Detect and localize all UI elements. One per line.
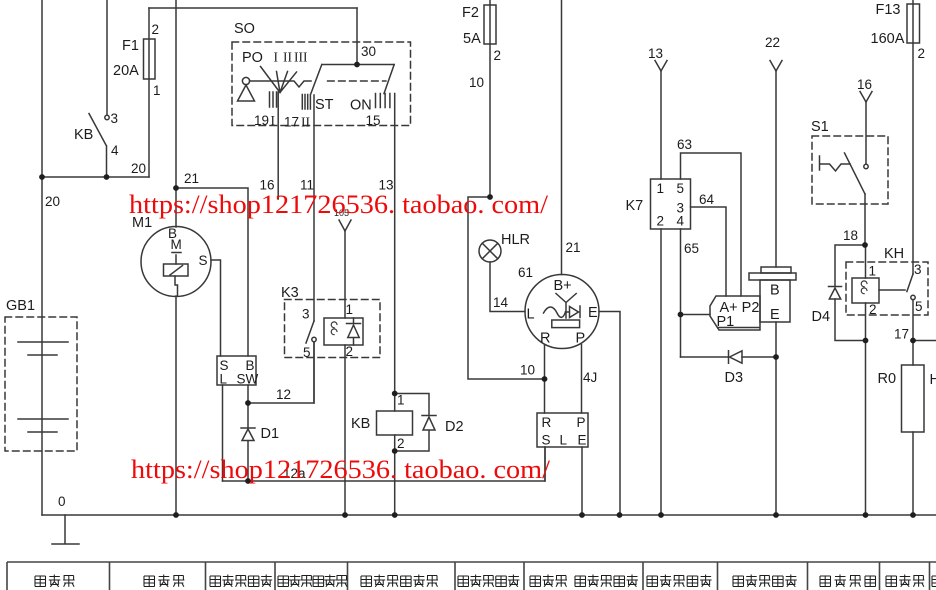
svg-text:P1: P1 [717,314,735,330]
wire SW L pin down to 12a [222,385,224,481]
ground [52,515,79,544]
generator B+ wire from top [561,0,563,275]
svg-text:B+: B+ [554,278,572,294]
wire K7 pin2 to bus [660,229,662,515]
S1 contact [864,164,868,168]
junction D4 KH [863,338,869,344]
svg-text:2: 2 [918,46,926,61]
SO contact 17 ST bars [302,95,310,110]
svg-text:20A: 20A [113,63,139,79]
wire 64 K7 pin3 to P2 [691,207,727,296]
svg-text:2: 2 [152,22,160,37]
junction node 17 [910,338,916,344]
wire KH coil 2 to bus [865,341,867,516]
wire KH coil to contact inside [879,289,905,291]
junction node 10 lower [542,376,548,382]
junction SO 30 [354,62,360,68]
junction KB relay 2 [392,448,398,454]
KH coil box [852,278,879,303]
svg-text:PO: PO [242,50,263,66]
wire 65 K7 pin4 [681,229,711,357]
switch S1 dashed box [812,136,888,204]
svg-text:5: 5 [915,299,923,314]
svg-text:P: P [577,415,586,430]
generator diode symbol [566,306,581,318]
svg-text:17: 17 [284,115,299,130]
wire 13 from SO 15 to relay KB [394,94,396,394]
svg-text:5A: 5A [463,31,481,47]
wire R0 to bus [912,432,914,515]
svg-text:3: 3 [914,262,922,277]
wire K3 contact 5 down [313,342,315,403]
junction node 12 [245,400,251,406]
svg-text:II: II [301,115,310,130]
wire box E pin to bus [581,447,583,515]
table text starter [144,575,184,587]
table text park relay [647,575,712,587]
table text preheat switch [820,575,876,587]
ground bus wire bottom [42,514,936,516]
svg-text:65: 65 [684,241,699,256]
junction node 10 top [487,194,493,200]
svg-text:4: 4 [111,143,119,158]
svg-text:S1: S1 [811,119,829,135]
connector 22 fork [770,61,782,72]
svg-text:F1: F1 [122,38,139,54]
table text charge lamp [458,575,519,587]
svg-text:21: 21 [184,171,199,186]
svg-text:E: E [770,307,780,323]
wire generator P 4J [581,345,583,414]
svg-text:17: 17 [894,327,909,342]
battery GB1 dashed box [5,317,77,451]
junction node 65 [678,312,684,318]
generator star winding [556,294,576,319]
svg-text:61: 61 [518,265,533,280]
wire 16 to S1 [865,102,867,164]
SO position fan lines [261,67,297,93]
relay K7 box [651,179,691,229]
SO contact 19 bars [270,92,277,107]
SO rotor alt position dashed [328,80,386,82]
wire 105 to K3 coil [344,231,346,318]
diode D3 [681,351,777,363]
svg-text:II: II [283,50,292,65]
svg-text:B: B [770,283,780,299]
diode D2 [395,394,436,452]
svg-text:4J: 4J [583,370,597,385]
wire 63 K7 pin5 to P2 [681,153,742,296]
svg-text:15: 15 [366,113,381,128]
junction node 12a [245,478,251,484]
junction node 21 [173,185,179,191]
svg-text:13: 13 [648,46,663,61]
fuse F2 [489,0,491,197]
wire node 10 branch left [468,197,545,379]
svg-text:R: R [542,415,552,430]
svg-text:ST: ST [315,97,334,113]
ignition switch SO dashed box [232,42,411,126]
svg-text:L: L [527,307,535,323]
svg-text:SW: SW [237,372,259,387]
svg-text:KB: KB [351,416,370,432]
svg-text:19: 19 [254,113,269,128]
svg-text:1: 1 [153,83,161,98]
wire node 21 branch to SW box [176,188,248,356]
svg-text:0: 0 [58,494,66,509]
svg-text:3: 3 [111,111,119,126]
KH contact blade [907,274,913,292]
svg-text:5: 5 [677,181,685,196]
svg-text:D1: D1 [261,426,280,442]
wire 12a horizontal [223,447,546,481]
svg-text:E: E [578,433,587,448]
wire 22 to solenoid B [775,71,777,267]
wire box S pin to 12a [544,447,546,481]
svg-text:S: S [542,433,551,448]
table text key switch [278,575,348,587]
wire M1 S terminal to SW box [211,260,221,356]
wire 11 from SO 17 to K3 contact 3 [313,95,315,321]
junction KB relay 1 [392,391,398,397]
wire KB feed from top [106,0,108,115]
svg-text:K7: K7 [626,198,644,214]
wire 17 to right edge [913,340,936,342]
SO rotor bar [311,65,394,94]
diode D4 [829,287,866,341]
SO wiper arm with spring [250,81,311,87]
motor M1 [141,227,211,297]
junction node 18 [862,242,868,248]
svg-text:4: 4 [677,214,685,229]
svg-text:2: 2 [494,48,502,63]
svg-text:20: 20 [45,194,60,209]
svg-text:20: 20 [131,161,146,176]
battery cell plates [18,342,68,432]
svg-text:III: III [294,50,308,65]
svg-text:P: P [576,331,586,347]
svg-text:H: H [930,372,936,388]
svg-text:14: 14 [493,295,509,310]
svg-text:L: L [560,433,568,448]
svg-text:10: 10 [469,75,484,90]
wire generator R to node 10 [544,345,546,414]
legend table [7,562,936,590]
svg-text:160A: 160A [871,31,905,47]
solenoid valve cap [761,267,791,273]
svg-text:30: 30 [361,44,376,59]
resistor R0 [912,341,914,366]
wire 21 vertical from top to M1 [175,0,177,227]
svg-text:E: E [588,305,598,321]
svg-text:https://shop121726536. taobao.: https://shop121726536. taobao. com/ [129,190,549,219]
svg-text:F2: F2 [462,5,479,21]
svg-text:1: 1 [657,181,665,196]
svg-text:https://shop121726536. taobao.: https://shop121726536. taobao. com/ [131,455,551,484]
svg-text:L: L [220,372,228,387]
fuse F1 [148,8,150,177]
wire node 12 horizontal to K3 contact [248,342,314,403]
connector SW box (starter switch) [217,356,256,385]
wire HLR to generator L [490,262,525,312]
svg-text:KH: KH [884,246,904,262]
svg-text:D4: D4 [812,309,831,325]
wire KH 5 to node 17 [912,300,914,341]
switch KB [105,115,109,119]
svg-text:22: 22 [765,35,780,50]
wire 18 branch to D4 [835,245,865,287]
svg-text:M: M [171,237,182,252]
svg-text:R: R [540,331,550,347]
svg-text:HLR: HLR [501,232,530,248]
svg-text:16: 16 [857,77,872,92]
svg-text:ON: ON [350,98,372,114]
lamp HLR [479,240,501,262]
junction node 20 dots [39,174,45,180]
svg-text:S: S [199,253,208,268]
junction D3 E [773,354,779,360]
table text battery relay [361,575,438,587]
generator circle [525,275,599,349]
wire 30 from top into SO [356,8,358,65]
svg-text:2: 2 [346,344,354,359]
generator regulator box [552,320,580,328]
S1 spring return [820,156,851,171]
svg-text:D3: D3 [725,370,744,386]
svg-text:K3: K3 [281,285,299,301]
relay K3 dashed box [285,300,381,358]
svg-text:I: I [271,113,276,128]
svg-text:5: 5 [303,345,311,360]
svg-text:12: 12 [276,387,291,402]
table text generator safety relay [530,575,638,587]
connector 16 fork [860,92,872,103]
svg-text:KB: KB [74,127,93,143]
table text preheater [886,575,924,587]
table text clipped cell [932,576,936,587]
svg-text:18: 18 [843,228,858,243]
connector 13 fork [655,61,667,72]
wire SW pin to node 12 [247,385,249,403]
svg-text:2: 2 [657,214,665,229]
wire top horizontal F1 to SO 30 [149,7,357,9]
fuse F13 [912,0,914,274]
wire M1 to ground bus [175,296,177,515]
svg-text:21: 21 [566,240,581,255]
wire battery feed vertical left [41,0,43,515]
svg-text:1: 1 [346,302,354,317]
svg-text:SO: SO [234,21,255,37]
svg-text:I: I [274,50,279,65]
wire node 20 horizontal [42,176,149,178]
diode D1 [241,403,255,481]
connector P2 P1 plug [710,296,760,330]
solenoid valve body [760,280,790,322]
SO wiper pivot [242,77,249,84]
wire 13 to K7 pin1 [660,71,662,179]
svg-text:10: 10 [520,363,535,378]
svg-text:63: 63 [677,137,692,152]
SO contact 15 ON bars [376,94,390,108]
svg-text:F13: F13 [876,2,901,18]
svg-text:64: 64 [699,192,715,207]
relay KH dashed box [846,262,928,315]
wire S1 to node 18 [864,194,866,245]
table text battery [35,575,75,587]
relay KB box [377,411,413,435]
wire generator E to ground [599,312,620,516]
svg-text:R0: R0 [878,371,897,387]
connector 105 fork [339,220,351,231]
S1 blade [845,153,866,194]
svg-text:1: 1 [869,264,877,279]
wire 16 stub from SO 19 [277,92,279,199]
wire K3 coil 2 to bus [344,345,346,515]
svg-text:3: 3 [302,307,310,322]
table text park solenoid [733,575,797,587]
svg-text:2: 2 [869,302,877,317]
svg-text:GB1: GB1 [6,298,35,314]
svg-text:2: 2 [397,436,405,451]
junction bus dots [173,512,179,518]
K3 contact blade [306,321,314,343]
generator sine wave [544,307,566,317]
table text start relay [210,575,272,587]
svg-text:D2: D2 [445,419,464,435]
wire solenoid E to bus [775,322,777,515]
svg-text:1: 1 [397,393,405,408]
K3 coil box with diode [324,318,363,345]
relay box R P S L E [537,413,588,447]
